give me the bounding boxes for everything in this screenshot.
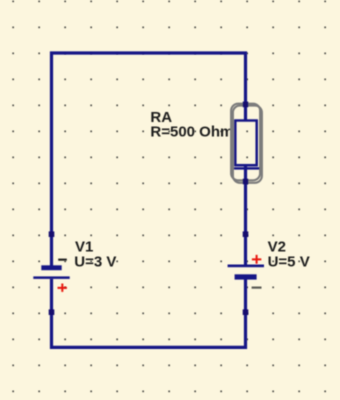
node: V2 bottom pin <box>243 309 249 315</box>
svg-text:U=3 V: U=3 V <box>74 253 116 270</box>
node: V1 bottom pin <box>49 309 55 315</box>
resistor RA: body rectangle <box>235 121 256 166</box>
battery V1: plus mark (red) <box>58 284 67 292</box>
node: V1 top pin <box>49 231 55 237</box>
svg-text:R=500 Ohm: R=500 Ohm <box>150 124 233 141</box>
battery V1: minus mark <box>58 259 67 261</box>
wire: V2 lead from top pin to long plate <box>244 232 247 265</box>
wire: V2 bottom lead + bottom wire + V1 lower lead <box>52 279 246 347</box>
resistor RA: gray housing outline <box>231 104 260 181</box>
battery V1: long thin plate (positive, bottom) <box>33 276 69 279</box>
svg-text:U=5 V: U=5 V <box>268 253 310 270</box>
resistor RA: gray housing shadow outline <box>233 106 262 183</box>
wire: left + top + right-upper segment of loop <box>52 53 246 266</box>
node: resistor bottom pin <box>243 179 249 185</box>
node: resistor top pin <box>243 102 249 108</box>
node: V2 top pin <box>243 231 249 237</box>
wire: resistor bottom pin down to V2 top pin <box>244 181 247 235</box>
resistor RA: bottom bar <box>234 167 260 170</box>
resistor RA: lead from top pin into body <box>244 103 247 122</box>
battery V2: minus mark (gray) <box>252 287 262 289</box>
battery V2: short thick plate (negative, bottom) <box>235 274 257 279</box>
battery V2: long thin plate (positive, top) <box>228 265 264 268</box>
battery V2: plus mark (red) <box>252 255 261 264</box>
battery V1: short thick plate (negative, top) <box>41 265 61 270</box>
resistor RA: lead from bottom bar to bottom pin <box>244 165 247 183</box>
